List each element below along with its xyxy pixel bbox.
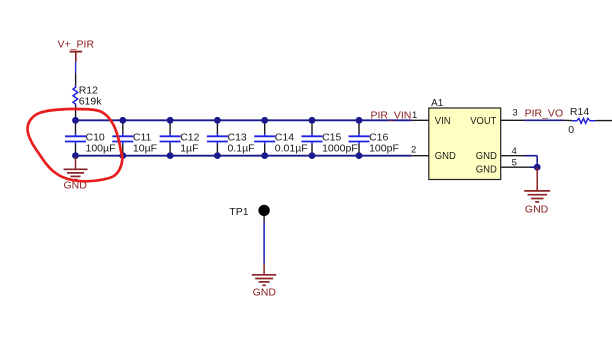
node C15 top (309, 117, 316, 124)
ground below TP1 (252, 264, 277, 299)
svg-text:V+_PIR: V+_PIR (58, 39, 95, 51)
capacitor C16 (349, 120, 399, 155)
svg-text:GND: GND (476, 151, 497, 162)
node pins 4-5 junction (534, 164, 541, 171)
svg-text:10µF: 10µF (133, 142, 157, 154)
svg-text:100pF: 100pF (369, 142, 399, 154)
wire TP1 to ground (263, 216, 265, 263)
svg-text:VOUT: VOUT (470, 116, 496, 127)
node C11 top (119, 117, 126, 124)
svg-text:PIR_VO: PIR_VO (525, 108, 564, 120)
node C11 bottom (119, 152, 126, 159)
node C13 top (214, 117, 221, 124)
svg-text:GND: GND (435, 151, 456, 162)
node C14 top (261, 117, 268, 124)
svg-text:PIR_VIN: PIR_VIN (371, 109, 412, 121)
node C15 bottom (309, 152, 316, 159)
resistor R12 (73, 85, 102, 108)
node C14 bottom (261, 152, 268, 159)
svg-text:1: 1 (412, 110, 417, 121)
test point TP1 (229, 205, 269, 218)
svg-text:R14: R14 (570, 106, 589, 118)
node C10 bottom (72, 152, 79, 159)
capacitor C11 (112, 120, 157, 155)
resistor R14 (568, 106, 595, 136)
pin 1 (412, 110, 429, 121)
capacitor C15 (302, 120, 358, 155)
power tap V+_PIR bar (70, 52, 83, 62)
ground below C10 (64, 157, 88, 191)
svg-text:4: 4 (512, 146, 517, 157)
capacitor C13 (207, 120, 255, 155)
wire top rail (76, 119, 412, 121)
svg-text:0: 0 (568, 124, 574, 136)
node C16 top (356, 117, 363, 124)
node C12 top (167, 117, 174, 124)
pin 4 (501, 146, 538, 157)
capacitor C12 (160, 120, 200, 155)
wire power to R12 (75, 62, 77, 86)
pin 5 (501, 157, 538, 168)
svg-text:0.01µF: 0.01µF (275, 142, 308, 154)
svg-text:A1: A1 (431, 98, 444, 109)
wire pin4 down to pin5 node (536, 156, 538, 168)
svg-text:5: 5 (512, 157, 517, 168)
node C10 top (72, 117, 79, 124)
svg-text:1µF: 1µF (180, 142, 198, 154)
node C16 bottom (356, 152, 363, 159)
op-amp U1 / block A1 (429, 98, 501, 180)
annotation red circle around C10 (28, 109, 123, 181)
node C13 bottom (214, 152, 221, 159)
capacitor C14 (254, 120, 308, 155)
svg-text:1000pF: 1000pF (322, 142, 358, 154)
svg-text:100µF: 100µF (86, 142, 116, 154)
svg-text:0.1µF: 0.1µF (228, 142, 255, 154)
svg-text:2: 2 (411, 144, 416, 155)
svg-text:TP1: TP1 (229, 206, 248, 218)
wire R12 to top rail (75, 106, 77, 121)
capacitor C10 (65, 120, 115, 155)
svg-text:VIN: VIN (435, 116, 451, 127)
wire R14 to edge (595, 120, 612, 122)
svg-text:619k: 619k (79, 95, 103, 107)
svg-text:3: 3 (512, 108, 517, 119)
wire bottom rail (76, 155, 412, 157)
node C12 bottom (167, 152, 174, 159)
svg-text:GND: GND (253, 286, 277, 298)
pin 2 (411, 144, 429, 155)
ground below A1 (524, 167, 550, 215)
svg-text:GND: GND (476, 164, 497, 175)
svg-text:GND: GND (525, 204, 549, 216)
pin 3 / wire PIR_VO (501, 108, 572, 121)
